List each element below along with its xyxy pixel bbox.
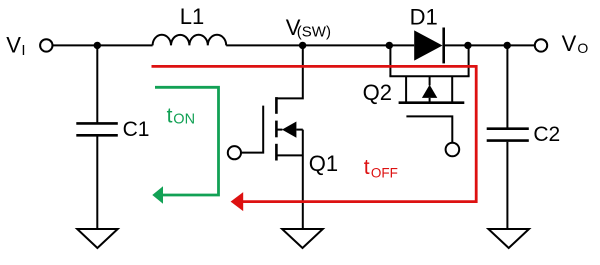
wire Q2 right riser: [468, 45, 470, 76]
svg-text:OFF: OFF: [371, 165, 398, 180]
svg-text:Q1: Q1: [309, 151, 338, 176]
arrowhead tOFF red: [231, 192, 244, 211]
svg-text:ON: ON: [173, 111, 195, 127]
wire C1 branch lower: [96, 137, 98, 229]
wire top-middle: [226, 44, 414, 46]
label V(SW): [286, 15, 331, 41]
wire tON green loop: [155, 87, 219, 195]
ground middle: [282, 229, 323, 248]
label VI: [6, 32, 25, 59]
label tON: [167, 104, 195, 127]
wire C2 branch lower: [506, 142, 508, 229]
wire tOFF red loop: [152, 66, 477, 201]
label VO: [562, 31, 589, 56]
inductor L1: [153, 35, 227, 46]
pin Q1 gate terminal: [228, 146, 241, 159]
svg-text:L1: L1: [180, 4, 204, 29]
terminal VO circle: [535, 39, 547, 51]
svg-text:t: t: [167, 104, 173, 127]
ground right: [488, 229, 529, 248]
terminal VI circle: [40, 39, 52, 51]
svg-text:t: t: [364, 156, 370, 179]
svg-text:I: I: [21, 42, 25, 59]
svg-text:D1: D1: [410, 5, 438, 30]
wire Q1 source branch: [302, 130, 304, 229]
wire Q1 drain branch: [277, 45, 303, 98]
svg-text:Q2: Q2: [363, 80, 392, 105]
ground left: [77, 229, 118, 248]
node D1 cathode: [464, 42, 471, 49]
node VSW: [299, 42, 306, 49]
wire top-left: [53, 44, 153, 46]
diode D1: [414, 28, 444, 64]
capacitor C2: [487, 129, 529, 141]
svg-text:C1: C1: [123, 118, 150, 141]
transistor Q1: [241, 97, 303, 160]
wire C1 branch upper: [96, 45, 98, 123]
svg-text:O: O: [577, 40, 588, 56]
wire C2 branch upper: [506, 45, 508, 128]
node input junction: [94, 42, 101, 49]
svg-text:V: V: [562, 31, 577, 56]
svg-text:(SW): (SW): [297, 23, 331, 40]
wire Q2 left riser: [389, 45, 391, 76]
wire top-right: [444, 44, 535, 46]
pin Q2 gate terminal: [446, 143, 460, 157]
transistor Q2: [389, 76, 469, 142]
node D1 anode: [386, 42, 393, 49]
label tOFF: [364, 156, 398, 180]
svg-text:V: V: [6, 32, 21, 57]
node C2 branch: [504, 42, 511, 49]
svg-text:C2: C2: [533, 123, 560, 146]
arrowhead tON green: [152, 186, 163, 203]
capacitor C1: [76, 123, 118, 135]
